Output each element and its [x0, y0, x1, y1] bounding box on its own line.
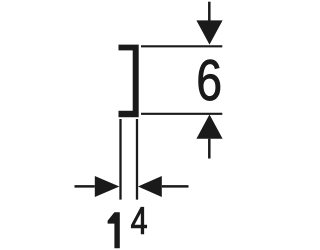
down arrowhead: [196, 20, 222, 44]
top dimension line: [141, 45, 222, 47]
top leader line: [208, 2, 211, 21]
profile cross-section ]: [119, 45, 139, 118]
left arrow tail line: [75, 185, 95, 188]
bottom dimension line: [141, 113, 222, 115]
right arrow tail line: [162, 185, 189, 188]
footnote superscript 4: [131, 207, 146, 233]
up arrowhead: [196, 115, 222, 139]
right extension line: [136, 119, 138, 200]
right-pointing arrowhead: [95, 176, 120, 197]
dimension text 1 (custom footless glyph): [108, 212, 120, 248]
left-pointing arrowhead: [138, 176, 162, 197]
bottom leader line: [208, 139, 211, 159]
left extension line: [119, 119, 121, 200]
dimension text 6: [199, 60, 220, 101]
